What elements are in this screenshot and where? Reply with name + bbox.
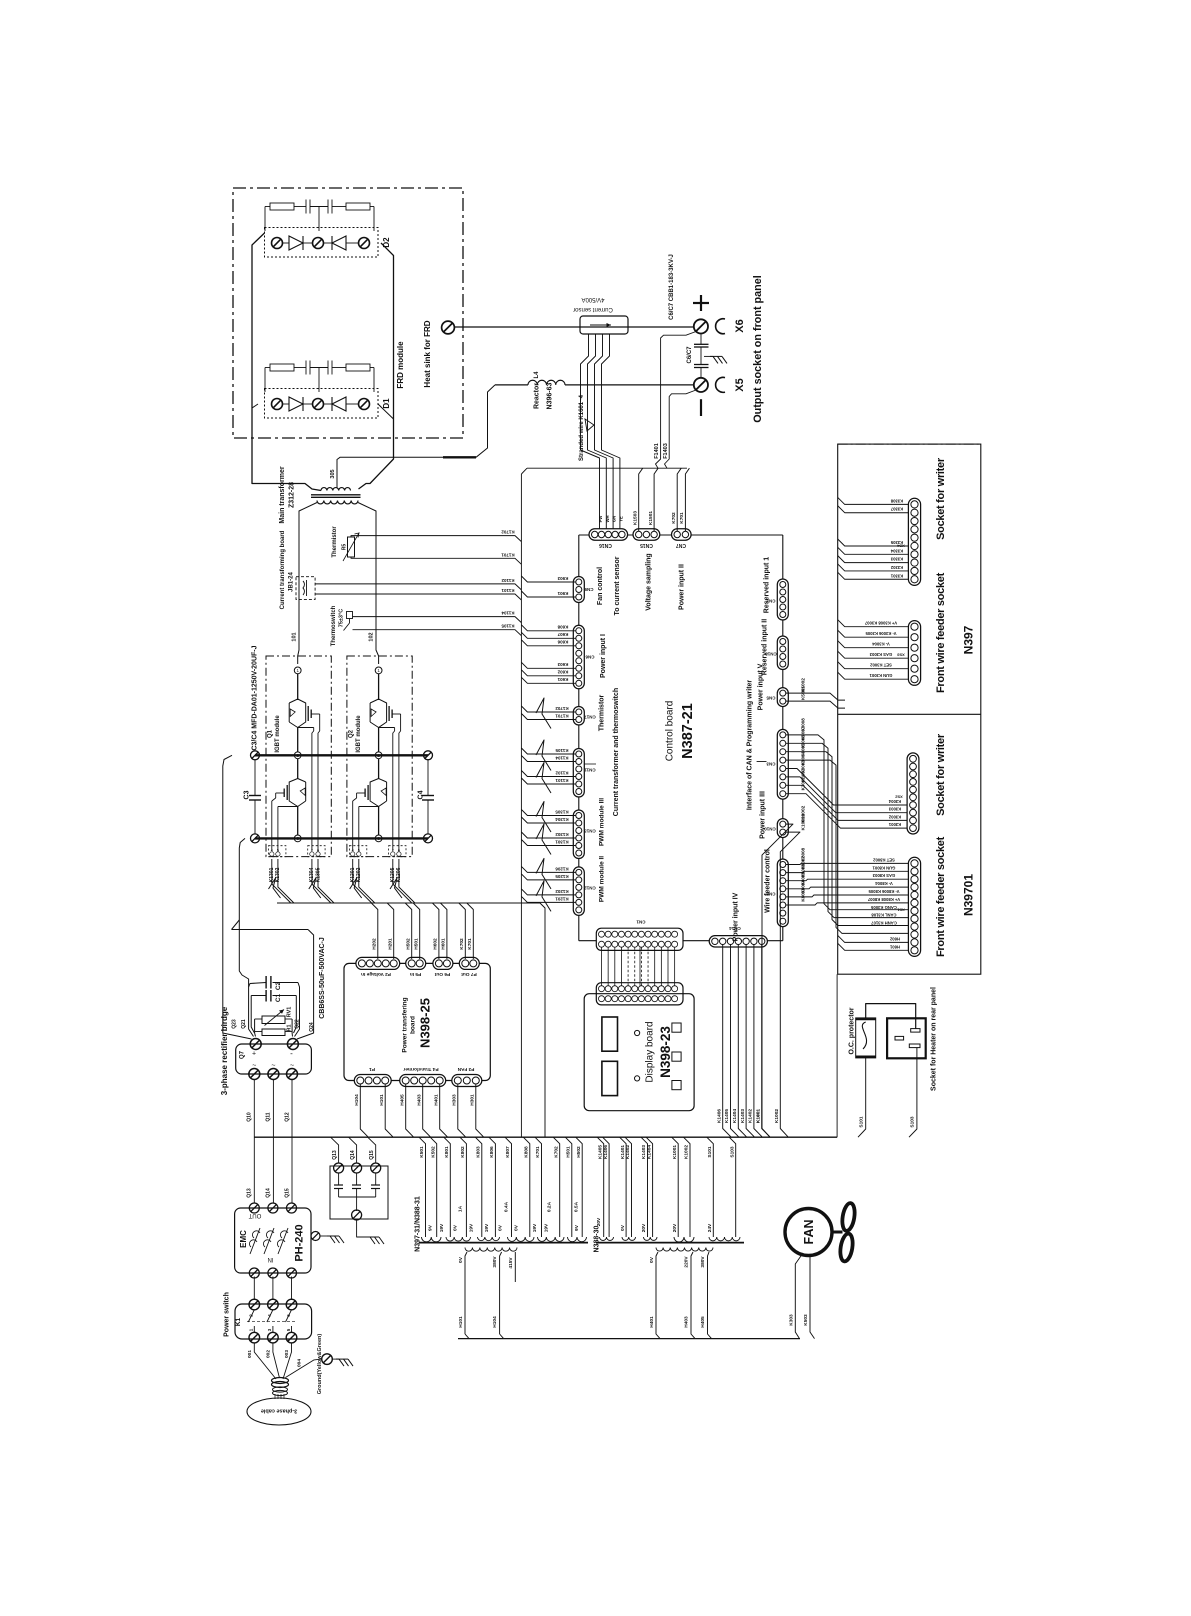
svg-text:C1: C1	[275, 993, 282, 1002]
connector CN14	[709, 936, 767, 947]
svg-text:K702: K702	[459, 938, 465, 950]
diode block D2 dotted outline	[265, 228, 379, 258]
svg-text:Power input I: Power input I	[600, 634, 607, 678]
svg-text:Current sensor: Current sensor	[573, 306, 613, 312]
svg-text:CN16: CN16	[599, 542, 612, 548]
svg-text:Ground(Yellow&Green): Ground(Yellow&Green)	[317, 1334, 323, 1395]
upper emitter wire Q2	[378, 728, 380, 752]
svg-text:K1701: K1701	[555, 713, 569, 718]
svg-text:CN9: CN9	[584, 587, 593, 592]
pin 2 of Q1	[294, 752, 301, 759]
heater socket	[887, 1018, 926, 1058]
svg-text:K1701: K1701	[501, 552, 515, 557]
EMC screws bottom	[249, 1268, 259, 1278]
svg-text:CN6: CN6	[585, 654, 594, 659]
svg-text:Stranded wire K1601~4: Stranded wire K1601~4	[579, 394, 585, 461]
svg-text:K803: K803	[476, 1146, 482, 1158]
svg-text:0V: 0V	[453, 1224, 459, 1231]
svg-text:GUN K3001: GUN K3001	[869, 673, 892, 678]
svg-text:K603: K603	[557, 662, 568, 667]
gate bundle horizontal wire	[277, 902, 540, 904]
connector P5 In	[406, 957, 426, 969]
EMC ground screw	[311, 1232, 320, 1241]
svg-text:CN12: CN12	[584, 885, 596, 890]
svg-text:H401: H401	[649, 1316, 655, 1328]
svg-text:S103: S103	[910, 1116, 916, 1128]
svg-text:0V: 0V	[458, 1256, 464, 1263]
svg-text:N397: N397	[961, 625, 975, 654]
svg-text:XS2: XS2	[894, 795, 902, 800]
svg-text:002: 002	[266, 1350, 272, 1358]
connector CN8	[777, 859, 788, 927]
svg-text:H401: H401	[433, 1094, 439, 1106]
wire primary right end 102 to IGBT Q2	[358, 503, 379, 665]
svg-text:K903: K903	[557, 576, 568, 581]
svg-text:P2 Voltage In: P2 Voltage In	[361, 971, 391, 977]
primary winding group 2	[656, 1248, 713, 1252]
svg-text:K1201: K1201	[555, 896, 569, 901]
svg-text:1A: 1A	[457, 1205, 463, 1212]
svg-text:Q15: Q15	[369, 1150, 375, 1160]
svg-text:Heat sink for FRD: Heat sink for FRD	[423, 320, 432, 387]
svg-text:S101: S101	[707, 1146, 713, 1158]
connector CN5	[777, 688, 788, 707]
svg-text:K1202: K1202	[555, 889, 569, 894]
svg-text:V- K3006 K3005: V- K3006 K3005	[865, 631, 897, 636]
svg-text:101: 101	[291, 632, 297, 641]
socket XS3	[908, 621, 920, 686]
terminal X6 screw	[694, 319, 708, 333]
gate wires of Q2	[400, 714, 402, 731]
svg-text:CN3: CN3	[766, 761, 775, 766]
svg-text:H405: H405	[700, 1316, 706, 1328]
svg-text:H602: H602	[889, 936, 900, 941]
svg-text:Socket for writer: Socket for writer	[935, 733, 947, 816]
svg-text:0V: 0V	[649, 1256, 655, 1263]
snubber network for D1	[265, 367, 270, 369]
rectifier bridge Q7 box	[236, 1044, 312, 1074]
winding coils group 2	[600, 1237, 614, 1241]
svg-text:CANL K3108: CANL K3108	[871, 913, 897, 918]
svg-text:P6 Out: P6 Out	[434, 971, 450, 977]
wires P4 to transformer	[406, 1084, 414, 1137]
gate terminal boxes of Q2	[349, 846, 366, 857]
capacitor bank box	[330, 1166, 388, 1219]
svg-text:H502: H502	[576, 1146, 582, 1158]
rectifier DC terminals	[250, 1039, 261, 1050]
svg-text:Current transforming board: Current transforming board	[280, 530, 286, 609]
svg-text:~: ~	[252, 1063, 256, 1070]
main bus line y1137	[254, 1136, 837, 1138]
capacitor bank screws	[334, 1163, 344, 1173]
connector CN9	[573, 577, 584, 603]
branch wires from harness to CN9	[521, 576, 575, 582]
svg-text:K8003: K8003	[801, 888, 806, 902]
main transformer secondary winding	[321, 488, 350, 491]
svg-text:Main transformer: Main transformer	[279, 466, 286, 523]
svg-text:K1206: K1206	[555, 866, 569, 871]
connector CN13	[573, 810, 584, 859]
connector P6 Out	[433, 957, 453, 969]
svg-text:GAS K3003: GAS K3003	[869, 652, 892, 657]
XS4 wires	[838, 497, 909, 504]
svg-text:K1702: K1702	[501, 529, 515, 534]
svg-text:N396-63: N396-63	[547, 382, 554, 409]
svg-text:To current sensor: To current sensor	[614, 556, 621, 615]
CN15 riser wires	[639, 468, 643, 531]
svg-text:K1001: K1001	[756, 1109, 762, 1123]
svg-text:H403: H403	[684, 1316, 690, 1328]
svg-text:Q24: Q24	[309, 1022, 315, 1032]
svg-text:19V: 19V	[544, 1223, 550, 1232]
bus screws	[251, 751, 260, 760]
svg-text:K1305: K1305	[555, 809, 569, 814]
svg-text:H501: H501	[413, 938, 419, 950]
capacitor bank ground screw	[352, 1210, 362, 1220]
wires S101 S103 to transformer	[858, 1058, 866, 1137]
varistor RV1	[262, 1016, 285, 1024]
svg-text:K1105: K1105	[555, 748, 569, 753]
AC input lines from EMC to rectifier	[253, 1080, 255, 1204]
svg-text:220V: 220V	[684, 1256, 690, 1268]
svg-text:C3: C3	[244, 790, 251, 799]
capacitor C6	[700, 334, 702, 345]
svg-text:K702: K702	[671, 512, 677, 524]
connector CN16	[589, 529, 628, 540]
display board connector	[596, 983, 683, 1005]
winding coils group 1	[422, 1237, 442, 1242]
svg-text:P1: P1	[369, 1066, 375, 1072]
svg-text:V+ K8008 K8007: V+ K8008 K8007	[867, 897, 900, 902]
lower IGBT of Q1	[297, 759, 299, 779]
svg-text:K1405: K1405	[597, 1145, 603, 1159]
svg-text:K1404: K1404	[646, 1145, 652, 1159]
wires P1 to transformer primary	[360, 1084, 368, 1137]
svg-text:K1304: K1304	[555, 817, 569, 822]
connector CN3	[777, 729, 788, 799]
diode block D1 terminal screws	[272, 399, 283, 410]
diode D2b	[332, 236, 346, 250]
svg-text:K3005: K3005	[801, 743, 806, 757]
wire feeder box left edge lower extension	[836, 974, 838, 1137]
svg-text:CANG K3005: CANG K3005	[870, 905, 897, 910]
connector CN7	[672, 529, 692, 540]
diode block D2 terminal screws	[272, 238, 283, 249]
svg-text:K701: K701	[467, 938, 473, 950]
svg-text:Front wire feeder socket: Front wire feeder socket	[935, 836, 947, 957]
snubber drop wires D2	[264, 207, 266, 232]
snubber loop C2	[249, 983, 266, 988]
svg-text:H502: H502	[405, 938, 411, 950]
wires CN8 to XS1	[786, 863, 909, 864]
svg-text:V- K3004: V- K3004	[872, 642, 890, 647]
secondary winding drops group 2	[597, 1137, 604, 1237]
svg-text:N398-25: N398-25	[418, 998, 433, 1048]
svg-text:Current transformer and thermo: Current transformer and thermoswitch	[613, 688, 620, 816]
svg-text:K1101: K1101	[501, 588, 515, 593]
socket XS4	[908, 498, 920, 585]
pin 2 of Q2	[375, 752, 382, 759]
svg-text:Display board: Display board	[645, 1021, 656, 1082]
wires CN1 to display connector	[601, 947, 603, 986]
svg-text:Thermistor: Thermistor	[599, 694, 606, 731]
seven segment display windows	[602, 1017, 618, 1051]
svg-text:Reserved input 1: Reserved input 1	[764, 557, 771, 614]
svg-text:K3304: K3304	[890, 548, 903, 553]
svg-text:Power transfering: Power transfering	[401, 997, 408, 1052]
svg-text:K901: K901	[557, 591, 568, 596]
svg-text:0V: 0V	[498, 1224, 504, 1231]
svg-text:JB1-24: JB1-24	[289, 572, 295, 592]
X5 hook contact	[716, 377, 725, 392]
svg-text:FAN: FAN	[802, 1220, 816, 1245]
svg-text:K10001: K10001	[801, 813, 807, 830]
capacitor C7	[694, 364, 709, 366]
svg-text:WH: WH	[605, 516, 610, 523]
svg-text:102: 102	[368, 632, 374, 641]
svg-text:CN11: CN11	[584, 767, 596, 772]
wire primary left end 101 to IGBT Q1	[298, 503, 317, 665]
control board N387-21 outline	[578, 535, 580, 941]
IGBT module Q1 dash-dot box	[266, 656, 331, 857]
svg-text:K1105: K1105	[501, 623, 515, 628]
svg-text:C2: C2	[275, 981, 282, 990]
svg-text:H303: H303	[452, 1094, 458, 1106]
svg-text:N398-23: N398-23	[658, 1026, 673, 1078]
connector CN6	[573, 625, 584, 689]
svg-text:K3307: K3307	[890, 507, 903, 512]
core bar group 2	[596, 1242, 744, 1244]
diode D2a	[289, 236, 303, 250]
capacitor bank internals	[338, 1173, 340, 1185]
plus symbol	[693, 302, 709, 304]
O.C. protector	[856, 1018, 876, 1058]
primary taps group 2	[656, 1252, 660, 1339]
EMC inductors	[250, 1228, 260, 1254]
svg-text:Power input III: Power input III	[760, 791, 767, 839]
wire X5 line through reactor	[495, 384, 528, 386]
svg-text:H602: H602	[433, 938, 439, 950]
svg-text:H601: H601	[441, 938, 447, 950]
wire secondary left end to heat sink bus	[252, 480, 321, 491]
current sensor secondary wires x4	[581, 334, 600, 531]
svg-text:S101: S101	[859, 1116, 865, 1128]
branch wires to CN13 with break marks	[521, 810, 575, 816]
minus symbol	[700, 399, 702, 416]
svg-text:GN: GN	[612, 516, 617, 522]
svg-text:19V: 19V	[532, 1223, 538, 1232]
svg-text:K3001: K3001	[888, 822, 901, 827]
svg-text:Thermoswitch: Thermoswitch	[331, 605, 337, 646]
connector CN2	[777, 579, 788, 620]
svg-text:IGBT module: IGBT module	[356, 715, 362, 753]
svg-text:FRD module: FRD module	[396, 341, 405, 389]
diode block D1 internal wiring	[283, 403, 290, 405]
svg-text:9V: 9V	[428, 1224, 434, 1231]
svg-text:K808: K808	[524, 1146, 530, 1158]
svg-text:PWM module III: PWM module III	[598, 798, 605, 846]
wire 305 thick segment to X5 line	[443, 456, 476, 458]
svg-text:H101: H101	[458, 1316, 464, 1328]
svg-text:K601: K601	[557, 677, 568, 682]
display board corner pads	[672, 1023, 681, 1032]
svg-text:CANH K3107: CANH K3107	[871, 921, 897, 926]
svg-text:Q7: Q7	[240, 1050, 246, 1059]
svg-text:Q23: Q23	[231, 1019, 237, 1029]
svg-text:H202: H202	[372, 938, 378, 950]
svg-text:K1406: K1406	[603, 1145, 609, 1159]
svg-text:Socket for Heater on rear pane: Socket for Heater on rear panel	[931, 987, 938, 1091]
connector CN11	[573, 749, 584, 798]
svg-text:K1401: K1401	[620, 1145, 626, 1159]
svg-text:V- K8004: V- K8004	[875, 881, 893, 886]
power switch K1 box	[235, 1304, 312, 1339]
3-phase cable gland	[272, 1378, 289, 1384]
svg-text:Q10: Q10	[247, 1112, 253, 1122]
svg-text:Fan control: Fan control	[597, 567, 604, 605]
XS3 wires	[838, 620, 909, 627]
gate terminal boxes of Q1	[269, 846, 286, 857]
svg-text:Front wire feeder socket: Front wire feeder socket	[935, 572, 947, 693]
svg-text:Socket for writer: Socket for writer	[935, 457, 947, 540]
svg-text:9V: 9V	[574, 1224, 580, 1231]
gate wires of Q1	[319, 714, 321, 731]
branch wires to CN17 with break marks	[521, 706, 575, 712]
diode block D1 dotted outline	[265, 389, 379, 419]
svg-text:K1102: K1102	[555, 770, 569, 775]
svg-text:O.C. protector: O.C. protector	[849, 1007, 856, 1054]
svg-text:H101: H101	[379, 1094, 385, 1106]
EMC filter box	[235, 1208, 311, 1273]
fan wires	[795, 1253, 803, 1339]
lower IGBT of Q2	[378, 759, 380, 779]
svg-text:K701: K701	[535, 1146, 541, 1158]
capacitor bank risers	[331, 1137, 339, 1163]
svg-text:Voltage sampling: Voltage sampling	[646, 553, 653, 610]
break marks on gate wire pairs	[269, 878, 281, 898]
svg-text:D1: D1	[382, 398, 391, 409]
wires CN14 to transformer area	[723, 945, 732, 1138]
resistor R1	[262, 1029, 285, 1036]
wire protector to socket	[866, 1004, 916, 1029]
current sensor arrow	[590, 324, 611, 326]
svg-text:K1406: K1406	[716, 1109, 722, 1123]
svg-text:K3001: K3001	[801, 777, 806, 791]
svg-text:380V: 380V	[492, 1256, 498, 1268]
svg-text:K3302: K3302	[890, 565, 903, 570]
svg-text:K3003: K3003	[888, 807, 901, 812]
power switch contacts	[248, 1310, 254, 1322]
wires power switch to cable	[254, 1343, 276, 1379]
svg-text:004: 004	[297, 1359, 303, 1367]
wires gate bundle into P2/P5/P6/P7	[371, 903, 378, 959]
svg-text:K5001: K5001	[801, 686, 807, 700]
svg-text:380V: 380V	[700, 1256, 706, 1268]
svg-text:PWM module II: PWM module II	[598, 856, 605, 902]
current sensor body	[580, 316, 628, 334]
svg-text:CN15: CN15	[640, 542, 653, 548]
chassis ground screw	[322, 1354, 333, 1365]
R1 RV1 end link bars	[254, 1019, 256, 1033]
connector P3 FAN	[452, 1075, 482, 1087]
wires CN5 to socket area	[786, 693, 845, 700]
wire X5 to F1403	[665, 390, 697, 468]
core bar group 1	[419, 1242, 588, 1244]
current transforming board JB1-24	[296, 577, 315, 600]
wires thermoswitch to harness	[353, 617, 522, 623]
wire marker triangle	[585, 419, 594, 431]
svg-text:24V: 24V	[707, 1223, 713, 1232]
svg-text:K1702: K1702	[555, 706, 569, 711]
svg-text:K806: K806	[489, 1146, 495, 1158]
svg-text:CN5: CN5	[766, 695, 775, 700]
terminal X5 screw	[694, 378, 708, 392]
snubber loop C1	[251, 995, 266, 997]
svg-text:Q14: Q14	[350, 1150, 356, 1160]
harness vertical line x521	[520, 474, 522, 1137]
XS1 bottom H wires	[838, 935, 909, 942]
svg-text:Wire feeder control: Wire feeder control	[765, 849, 772, 913]
svg-text:GUN K8001: GUN K8001	[872, 865, 895, 870]
svg-text:RV1: RV1	[286, 1007, 292, 1018]
wires EMC to power switch	[253, 1277, 255, 1301]
svg-text:K3301: K3301	[890, 573, 903, 578]
ground wire 004	[286, 1359, 322, 1377]
svg-text:K1102: K1102	[501, 578, 515, 583]
DC bus lower	[255, 837, 428, 839]
heat sink terminal screw	[442, 321, 455, 334]
svg-text:19V: 19V	[469, 1223, 475, 1232]
wire X6 to F1401	[656, 332, 697, 469]
reactor L4 winding	[528, 380, 565, 385]
connector P1	[354, 1075, 391, 1087]
svg-text:GAS K8003: GAS K8003	[872, 873, 895, 878]
svg-text:K1402: K1402	[625, 1145, 631, 1159]
svg-text:4V/500A: 4V/500A	[581, 296, 604, 302]
display buttons	[635, 1030, 640, 1035]
svg-text:X6: X6	[734, 319, 746, 332]
fan hub link	[832, 1231, 843, 1234]
wires CN10 down to transformer	[762, 824, 793, 1137]
power switch screws top	[249, 1299, 260, 1310]
display board N398-23 box	[584, 994, 694, 1111]
svg-text:K3305: K3305	[890, 540, 903, 545]
svg-text:Thermistor: Thermistor	[332, 526, 338, 558]
svg-text:CN7: CN7	[676, 542, 686, 548]
svg-text:C4: C4	[418, 790, 425, 799]
svg-text:K3303: K3303	[890, 557, 903, 562]
svg-text:K501: K501	[419, 1146, 425, 1158]
svg-text:19V: 19V	[484, 1223, 490, 1232]
svg-text:20V: 20V	[596, 1217, 602, 1226]
svg-text:Output socket on front panel: Output socket on front panel	[752, 275, 764, 423]
svg-text:K1104: K1104	[501, 610, 515, 615]
svg-text:K702: K702	[553, 1146, 559, 1158]
svg-text:SET K3002: SET K3002	[870, 663, 892, 668]
svg-text:K1403: K1403	[740, 1109, 746, 1123]
svg-text:K1501: K1501	[648, 511, 654, 525]
upper emitter wire Q1	[297, 728, 299, 752]
svg-text:X5: X5	[734, 378, 746, 391]
capacitor C4	[427, 760, 429, 796]
top bus wire y468	[527, 467, 687, 469]
wires JB1-24 to harness	[315, 584, 521, 590]
gate bundle wire drop to bus	[540, 903, 545, 1137]
lower emitter wire Q1	[297, 807, 299, 836]
connector P7 Out	[459, 957, 479, 969]
svg-text:PH-240: PH-240	[293, 1224, 305, 1261]
svg-text:K802: K802	[460, 1146, 466, 1158]
